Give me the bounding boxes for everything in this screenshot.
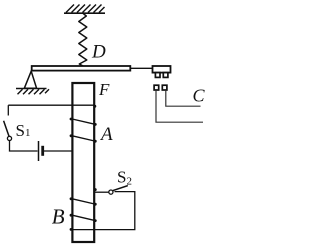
spring D	[79, 13, 87, 66]
wire S1 to battery	[10, 141, 38, 152]
connector upper prong right	[163, 73, 168, 78]
wire beam to connector	[130, 67, 152, 69]
svg-text:B: B	[52, 204, 65, 228]
coil B: S2 wire curl at right edge	[94, 188, 97, 191]
pivot ground with hatching	[16, 89, 49, 95]
battery long plate	[38, 141, 40, 161]
wire battery to coil	[44, 150, 72, 152]
switch S2 contact circle	[109, 190, 113, 194]
battery short plate	[41, 146, 44, 156]
svg-text:A: A	[99, 124, 113, 145]
ceiling support with hatching	[64, 5, 105, 14]
coil B bottom wire left curl	[70, 228, 73, 231]
wire from right contact to C	[166, 90, 201, 106]
coil B winding 1	[72, 199, 94, 204]
svg-text:F: F	[98, 80, 110, 99]
wire from left contact to C	[156, 90, 203, 122]
svg-text:S1: S1	[16, 121, 31, 140]
connector lower contact right	[162, 85, 167, 90]
coil B winding 2	[72, 215, 94, 220]
coil top wire right curl	[93, 105, 96, 108]
connector lower contact left	[154, 85, 159, 90]
S1 branch: vertical from top wire	[7, 105, 9, 115]
lever beam	[32, 66, 131, 71]
svg-text:D: D	[91, 41, 106, 62]
S2 right wire rectangle	[72, 192, 135, 230]
switch S1 contact circle	[7, 136, 11, 140]
switch S1 blade	[4, 121, 9, 137]
svg-text:C: C	[193, 86, 206, 106]
connector upper block	[153, 66, 171, 73]
column core	[72, 83, 94, 242]
connector upper prong left	[155, 73, 160, 78]
pivot triangle	[24, 71, 36, 88]
wire coil to S2	[95, 191, 109, 193]
coil A winding 1	[72, 119, 94, 124]
wire S1 top to coil	[8, 104, 94, 106]
coil A winding 2	[72, 136, 94, 141]
switch S2 blade	[113, 186, 128, 191]
svg-text:S2: S2	[117, 168, 132, 188]
